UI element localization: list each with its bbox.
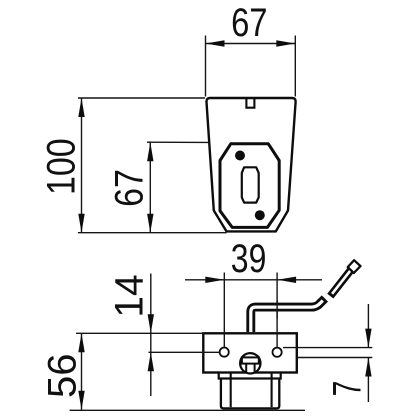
node lever arm outer xyxy=(251,299,325,333)
wire ext left of 67 top xyxy=(205,36,207,97)
node dot lower xyxy=(255,210,265,220)
wire 7 ext top xyxy=(283,347,372,349)
node toggle shaft inner white xyxy=(332,270,351,294)
svg-text:39: 39 xyxy=(231,236,267,281)
node arrow 56 top xyxy=(78,333,84,352)
wire socket inner left xyxy=(230,373,232,407)
node arrow 67top right xyxy=(276,40,295,46)
svg-text:100: 100 xyxy=(38,138,83,195)
svg-text:56: 56 xyxy=(40,353,84,398)
node top view body xyxy=(206,98,295,231)
wire screw slot left line xyxy=(245,364,247,373)
node arrow 39 right xyxy=(277,277,296,283)
wire 56 bottom ext xyxy=(70,409,305,411)
wire hole center ext xyxy=(149,351,221,353)
node arrow 67L top xyxy=(147,142,153,161)
node arrow 100 bottom xyxy=(78,214,84,233)
node arrow 67top left xyxy=(206,40,225,46)
wire dim line 67 left xyxy=(149,142,151,233)
wire 7 dim upper xyxy=(367,304,369,348)
node octagon plate xyxy=(220,144,279,228)
node socket body xyxy=(221,379,279,409)
wire ext bottom shared 100/67 xyxy=(78,232,227,234)
svg-text:67: 67 xyxy=(106,169,151,207)
node arrow 14 top xyxy=(148,314,154,333)
wire 7 dim lower xyxy=(367,358,369,403)
wire 39 ext right over lever xyxy=(276,300,278,318)
node dot upper xyxy=(235,151,245,161)
node arrow 56 bottom xyxy=(78,391,84,410)
node screw head xyxy=(240,353,260,373)
wire 39 ext right xyxy=(276,273,278,348)
wire ext top-left of 100 xyxy=(78,97,205,99)
wire dim line 100 xyxy=(81,98,83,233)
node arrow 7 bottom xyxy=(365,358,371,377)
wire 14 dim line xyxy=(150,274,152,397)
node arrow 67L bottom xyxy=(147,214,153,233)
wire ext right of 67 top xyxy=(294,36,296,97)
node arrow 14 bottom xyxy=(148,352,154,371)
node toggle cap xyxy=(348,260,361,273)
node center hole xyxy=(242,167,259,202)
node arrow 7 top xyxy=(365,329,371,348)
node arrow 100 top xyxy=(78,98,84,117)
node lever arm inner white xyxy=(251,301,323,333)
node arrow 39 left xyxy=(205,277,224,283)
wire 56 dim line xyxy=(81,333,83,410)
node collar xyxy=(219,373,281,379)
node toggle shaft outer xyxy=(330,270,350,296)
wire 39 ext left xyxy=(223,273,225,348)
wire screw slot right line xyxy=(254,364,256,373)
wire dim line 67 top xyxy=(206,43,296,45)
node hole left xyxy=(220,348,229,357)
svg-text:67: 67 xyxy=(231,0,267,45)
wire 39 dim line xyxy=(185,279,322,281)
svg-text:7: 7 xyxy=(326,381,370,397)
node notch xyxy=(246,98,254,108)
node screw slot xyxy=(242,357,259,363)
svg-text:14: 14 xyxy=(107,274,152,317)
wire socket inner right xyxy=(271,373,273,407)
wire block top ext xyxy=(76,332,204,334)
wire ext top of 67 left xyxy=(147,141,233,143)
node hole right xyxy=(273,348,282,357)
node side view block xyxy=(203,333,296,372)
wire 7 ext bottom xyxy=(297,357,373,359)
